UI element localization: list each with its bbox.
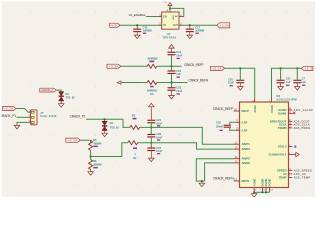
svg-text:CLKIN/XTAL1: CLKIN/XTAL1 <box>269 153 287 157</box>
power flag VB at U7 top <box>163 0 172 8</box>
ground symbol below rail <box>251 192 257 197</box>
resistor R4 <box>147 81 158 96</box>
svg-text:ADS_TEMP: ADS_TEMP <box>294 176 311 180</box>
power label +3.3 (DVDD rail) <box>301 66 313 70</box>
label VA_ENABLE <box>129 13 146 17</box>
wire +3.3A to AVDD <box>225 68 255 97</box>
transistor D4 TVS <box>102 119 119 132</box>
global label CRACK_A <box>40 88 57 92</box>
pin 5 right-top of U7 <box>179 13 184 17</box>
op-amp U7 body <box>162 12 179 29</box>
J7 reference designator <box>40 111 57 118</box>
svg-text:GAIN1: GAIN1 <box>278 111 287 115</box>
svg-text:+3.3A: +3.3A <box>4 107 14 111</box>
svg-text:IN: IN <box>163 24 166 27</box>
svg-text:10uF: 10uF <box>228 81 234 85</box>
svg-text:+3.3A: +3.3A <box>68 138 78 142</box>
junction C7 <box>296 67 298 69</box>
svg-text:CRACK_P1: CRACK_P1 <box>70 115 86 119</box>
pin DOUT + global label ADS_DOUT <box>288 118 310 124</box>
capacitor C22 <box>168 66 182 82</box>
svg-text:TVS_BI: TVS_BI <box>65 96 74 100</box>
svg-text:+3.3: +3.3 <box>304 67 312 71</box>
ground below C27 <box>149 157 155 162</box>
pin GAIN0 + global label ADS_GAIN0 <box>288 107 313 113</box>
pin AVDD top <box>252 98 255 103</box>
svg-text:10nF: 10nF <box>176 53 182 57</box>
pin AINN1 <box>234 146 240 150</box>
pins DGND bottom <box>260 188 274 193</box>
svg-text:10nF: 10nF <box>176 89 182 93</box>
svg-text:DGND: DGND <box>268 179 272 187</box>
power label +3.3A (regulator output) <box>217 23 230 28</box>
svg-text:AVDD: AVDD <box>253 105 257 112</box>
svg-text:GND: GND <box>171 15 173 20</box>
capacitor C26 <box>147 127 162 142</box>
svg-text:REFP: REFP <box>242 109 250 113</box>
power label +3.3A (ref filter) <box>107 64 121 68</box>
label CRACK_REFP at pin 14 <box>213 107 240 111</box>
U8 reference designator <box>276 94 297 101</box>
svg-text:CRACK_REFP: CRACK_REFP <box>184 63 204 67</box>
label CRACK_REFN at pin 15 <box>213 176 240 181</box>
power label +3.3A (divider) <box>66 138 81 142</box>
capacitor C7 <box>293 68 306 86</box>
wire +3.3A to R6 <box>80 140 90 143</box>
svg-text:VB: VB <box>111 23 117 27</box>
pin PDWN + global label ADS_PWDN <box>288 124 310 129</box>
ground above C24 <box>149 103 155 108</box>
wire AINN2 to ground tie <box>205 163 234 181</box>
junction REFP node <box>170 65 172 67</box>
svg-text:R5: R5 <box>132 114 136 118</box>
wire R3 to CRACK_REFP <box>157 65 182 67</box>
pin names inside U8 left <box>242 109 251 183</box>
svg-text:OUT: OUT <box>173 24 179 27</box>
svg-text:AGND: AGND <box>252 179 256 187</box>
pin TEMP + global label ADS_TEMP <box>288 174 310 180</box>
ground below J7 pin3 <box>14 124 20 129</box>
junction C20 <box>239 67 241 69</box>
ground below C20 <box>238 85 244 90</box>
svg-text:1uF: 1uF <box>176 72 181 76</box>
resistor R6 (vertical) <box>89 138 103 151</box>
svg-text:DGND: DGND <box>261 179 265 187</box>
svg-text:PDWN: PDWN <box>278 126 287 130</box>
pin SCLK + global label ADS_SCLK <box>288 121 310 127</box>
wire J7 pin3 to ground <box>17 122 31 124</box>
svg-text:1uF: 1uF <box>301 80 306 84</box>
svg-text:10nF: 10nF <box>156 136 162 140</box>
junction C21 <box>280 67 282 69</box>
power label VB <box>110 23 120 27</box>
wire R4 to CRACK_REFN <box>157 82 188 84</box>
junction D4 <box>104 118 106 120</box>
capacitor C19 <box>168 50 183 67</box>
svg-text:AINN2: AINN2 <box>242 161 251 165</box>
ground below D4 <box>102 132 108 137</box>
svg-text:CRACK_A: CRACK_A <box>41 88 53 92</box>
capacitor C20 <box>228 68 244 86</box>
wire CRACK_P1 to J7 pin2 <box>17 116 31 118</box>
ground below tie <box>199 182 205 187</box>
svg-text:+3.3A: +3.3A <box>212 67 222 71</box>
svg-text:CAP: CAP <box>242 128 248 132</box>
resistor R3 <box>147 57 158 69</box>
junction C17 <box>189 24 191 26</box>
capacitor C21 <box>277 68 292 86</box>
svg-text:1uF/X5R: 1uF/X5R <box>195 28 204 32</box>
svg-text:1uF: 1uF <box>286 80 291 84</box>
capacitor C17 <box>186 25 205 34</box>
U7 reference designator <box>162 32 176 39</box>
connector J7 body <box>31 110 38 125</box>
svg-text:CRACK_REFN: CRACK_REFN <box>189 79 209 83</box>
pin DVDD top <box>269 98 271 102</box>
svg-text:VA_ENABLE: VA_ENABLE <box>129 13 146 17</box>
resistor R5 <box>130 114 140 130</box>
ground below D3 <box>58 102 64 107</box>
pin names inside U8 right <box>269 108 287 180</box>
svg-text:R7: R7 <box>133 156 137 160</box>
resistor R8 (vertical) <box>89 157 103 171</box>
pin XTAL2 no-connect <box>288 143 296 148</box>
pin A0 + global label ADS_A0 <box>288 170 306 176</box>
unconnected arrow left of R4 <box>117 81 121 84</box>
svg-text:TPS7A03: TPS7A03 <box>162 35 176 39</box>
transistor D3 TVS <box>59 92 75 103</box>
wire loop top to right pin <box>170 8 184 16</box>
svg-text:100nF: 100nF <box>216 124 224 128</box>
wire R7 to AINN1 <box>138 143 234 149</box>
grid dots <box>10 12 308 186</box>
wire R6 to junction <box>90 150 92 156</box>
resistor R7 <box>128 141 138 160</box>
capacitor C23 <box>168 83 183 95</box>
svg-text:10nF: 10nF <box>156 121 162 125</box>
svg-text:R6: R6 <box>93 138 97 142</box>
ground below R8 <box>88 170 94 175</box>
IC U8 body <box>240 102 289 188</box>
junction REFN node <box>170 81 172 83</box>
wire VB to IN pin <box>120 24 158 26</box>
junction ground tie <box>201 180 203 182</box>
power label +3.3A (AVDD rail) <box>210 66 224 70</box>
wire CRACK_P1 to R5 <box>86 119 130 127</box>
svg-text:XTAL2: XTAL2 <box>278 145 287 149</box>
wire divider node to R7 <box>91 143 128 157</box>
wire +3.3A to R3 <box>121 65 147 67</box>
pin CLKIN tied to ground (rotated gnd) <box>288 151 299 157</box>
svg-text:D3: D3 <box>65 92 69 96</box>
capacitor C27 <box>147 143 162 157</box>
svg-text:AINN1: AINN1 <box>242 147 251 151</box>
svg-text:CRACK_REFN: CRACK_REFN <box>213 176 234 180</box>
svg-text:D4: D4 <box>110 121 114 125</box>
wire DVDD rail <box>272 68 302 98</box>
ground below C17 <box>187 34 193 39</box>
svg-text:C25: C25 <box>216 121 221 125</box>
pin AGND bottom <box>254 188 257 193</box>
svg-text:DGND: DGND <box>264 179 268 187</box>
ground rail below U8 <box>253 191 270 193</box>
pin AINP2 <box>234 155 240 159</box>
wire +3.3A to J7 pin1 <box>16 109 31 113</box>
pin 3 EN of U7 <box>158 13 162 17</box>
svg-text:ADS_A0: ADS_A0 <box>294 172 307 176</box>
svg-text:1uF/X5R: 1uF/X5R <box>143 28 152 32</box>
svg-text:ADS_SPEED: ADS_SPEED <box>294 168 312 172</box>
svg-text:ADS1232IPW: ADS1232IPW <box>276 97 297 101</box>
svg-text:REFN: REFN <box>242 179 250 183</box>
svg-text:AD: AD <box>175 15 179 18</box>
svg-text:Conn_01x03: Conn_01x03 <box>40 114 57 118</box>
junction C27 node <box>150 142 152 144</box>
wire CRACK_A to D3 <box>56 90 61 92</box>
svg-text:ADS_GAIN0: ADS_GAIN0 <box>294 108 314 112</box>
svg-text:CRACK_P1: CRACK_P1 <box>0 114 16 118</box>
svg-text:100k/5%: 100k/5% <box>93 141 102 145</box>
svg-text:TEMP: TEMP <box>279 176 287 180</box>
svg-text:10nF: 10nF <box>156 149 162 153</box>
svg-text:EN: EN <box>163 16 167 19</box>
ground below C16 <box>134 34 140 39</box>
pin GAIN1 no-connect <box>288 110 296 114</box>
svg-text:TVS_BI: TVS_BI <box>110 125 119 129</box>
capacitor C16 <box>133 25 152 34</box>
capacitor C25 between CAP pins <box>216 119 240 131</box>
pin 1 IN of U7 <box>158 22 162 26</box>
wire VA_ENABLE to EN <box>146 16 158 18</box>
svg-text:604/R3W: 604/R3W <box>148 57 159 61</box>
wire OUT to +3.3A <box>184 24 217 26</box>
pin SPEED + global label ADS_SPEED <box>288 167 312 173</box>
ground below C21 <box>278 85 284 90</box>
svg-text:R8: R8 <box>93 159 97 163</box>
pin 2 OUT of U7 <box>179 22 184 26</box>
svg-text:ADS_PWDN: ADS_PWDN <box>294 126 311 130</box>
svg-text:CAP: CAP <box>242 120 248 124</box>
svg-text:+3.3A: +3.3A <box>109 64 119 68</box>
wire AINP2 to ground tie <box>196 159 234 181</box>
pin AINN2 <box>234 159 240 163</box>
capacitor C24 <box>147 108 162 127</box>
wire R5 to AINP1 <box>140 127 234 144</box>
ground below C23 <box>169 94 175 99</box>
svg-text:AINP1: AINP1 <box>242 142 251 146</box>
ground above C19 <box>169 45 175 50</box>
svg-text:100k/5%: 100k/5% <box>93 163 102 167</box>
wire arrow to R4 <box>121 82 147 84</box>
junction at U7 top <box>169 7 171 9</box>
pin names inside U8 top/bottom (vertical) <box>252 105 273 186</box>
svg-text:+3.3A: +3.3A <box>220 23 230 27</box>
junction divider node <box>90 155 92 157</box>
power label +3.3A (connector) <box>3 107 17 111</box>
junction C16 <box>136 24 138 26</box>
svg-text:CRACK_REFP: CRACK_REFP <box>213 107 234 111</box>
pin 4 top of U7 <box>167 8 170 12</box>
svg-text:DVDD: DVDD <box>270 105 274 112</box>
ground below C7 <box>295 85 301 90</box>
pin AINP1 <box>234 141 240 145</box>
junction C24 node <box>150 126 152 128</box>
